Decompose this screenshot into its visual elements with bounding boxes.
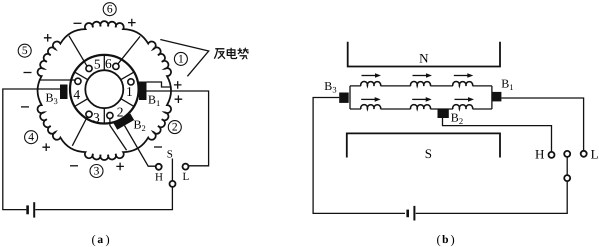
coil 5 — [18, 44, 31, 57]
svg-text:1: 1 — [178, 53, 184, 65]
current arrow top row 2 — [413, 75, 428, 77]
armature end connectors — [350, 86, 492, 109]
svg-text:S: S — [425, 146, 432, 161]
svg-text:N: N — [419, 50, 429, 65]
battery (a): long positive plate — [33, 202, 35, 217]
brush B1 (b) — [492, 92, 502, 102]
current arrow middle row 1 — [361, 98, 376, 100]
svg-text:2: 2 — [172, 122, 178, 134]
current arrow top row 1 — [362, 75, 377, 77]
segment 2 terminal dot — [107, 112, 113, 118]
coil 2 — [168, 121, 181, 134]
segment 4 terminal dot — [75, 78, 81, 84]
segment 6 terminal dot — [113, 63, 119, 69]
coil L4 bottom rail — [361, 105, 381, 109]
svg-text:6: 6 — [107, 4, 113, 16]
wire B3 to battery (left side) — [3, 89, 60, 210]
svg-text:(: ( — [437, 233, 441, 247]
coil L5 bottom rail — [411, 105, 431, 109]
brush B2 (rotated, on segment 2) — [113, 113, 134, 129]
plus sign coil 6 right end — [128, 19, 136, 27]
coil 1 — [174, 52, 187, 65]
svg-text:3: 3 — [94, 166, 100, 178]
wire battery+ to switch common — [35, 187, 172, 210]
radial wire dot6 to ring junction 60 — [118, 36, 140, 63]
plus sign at brush B1 lower — [175, 95, 183, 103]
terminal L (a) — [183, 164, 189, 170]
svg-text:H: H — [535, 147, 544, 162]
svg-text:a: a — [97, 234, 103, 246]
svg-text:2: 2 — [117, 105, 124, 120]
svg-text:4: 4 — [28, 132, 34, 144]
brush B3 — [60, 85, 68, 100]
svg-text:5: 5 — [94, 57, 101, 72]
current arrow middle row 3 — [455, 98, 470, 100]
coil 4 — [25, 131, 38, 144]
switch common terminal (a) — [170, 181, 176, 187]
coil L1 top rail — [361, 82, 381, 86]
wire battery to switch pivot (b) — [416, 181, 568, 213]
brush B3 (b) — [339, 93, 349, 103]
plus sign at brush B1 upper — [174, 81, 182, 89]
svg-text:3: 3 — [93, 110, 100, 125]
switch middle terminal (b) — [564, 151, 570, 157]
minus sign coil 2 lower end — [154, 146, 162, 148]
wire dot2 to ring junction 300 (jogged around brush B2) — [110, 119, 127, 151]
brush B1 — [139, 82, 147, 101]
armature coil ring (a) — [38, 21, 172, 160]
wire B2 to H — [125, 126, 156, 167]
current arrow middle row 2 — [412, 98, 427, 100]
coil 6 — [103, 3, 116, 16]
plus sign coil 5 upper end — [44, 34, 52, 42]
wire B3 left down to battery (b) — [313, 98, 405, 214]
svg-text:b: b — [442, 234, 448, 246]
svg-text:6: 6 — [105, 56, 112, 71]
svg-text:1: 1 — [126, 84, 133, 99]
svg-text:(: ( — [92, 233, 96, 247]
radial wire dot5 to ring junction 120 — [69, 36, 87, 66]
coil L2 top rail — [411, 82, 431, 86]
plus sign coil 4 lower end — [42, 143, 50, 151]
wire B1 to L (b) — [501, 98, 583, 151]
coil L6 bottom rail — [453, 105, 473, 109]
wire segment1/B1 to ring junction 0 (jogged) — [147, 82, 171, 87]
wire B1 lower output to L — [147, 91, 209, 166]
radial wire dot3 to ring junction 240 — [72, 117, 87, 146]
minus sign coil 4 upper end — [21, 106, 29, 108]
battery (a): short negative plate — [26, 205, 29, 214]
svg-text:5: 5 — [22, 45, 28, 57]
armature winding bottom rail with coils — [350, 108, 492, 110]
terminal H (a) — [156, 164, 162, 170]
svg-text:): ) — [106, 233, 110, 247]
back-EMF label (fan dian shi) — [214, 49, 225, 59]
minus sign coil 3 left end — [70, 165, 78, 167]
svg-text:4: 4 — [73, 87, 80, 102]
N pole piece — [348, 42, 500, 67]
segment 1 terminal dot — [128, 79, 134, 85]
commutator outer circle — [70, 55, 139, 124]
svg-text:): ) — [451, 233, 455, 247]
svg-text:H: H — [155, 171, 163, 183]
minus sign coil 6 left end — [74, 22, 82, 24]
commutator inner circle — [85, 70, 123, 108]
wire dot4 to ring junction 180 (routed above brush B3) — [39, 79, 76, 81]
segment 3 terminal dot — [86, 111, 92, 117]
coil L3 top rail — [453, 82, 473, 86]
switch S blade (a) — [171, 159, 173, 182]
svg-text:L: L — [591, 147, 599, 162]
wire B2 to H (b) — [443, 118, 552, 152]
battery (b): short plate — [406, 210, 409, 218]
battery (b): long plate — [413, 206, 415, 221]
terminal L (b) — [581, 151, 587, 157]
plus sign coil 3 right end — [116, 163, 124, 171]
switch pivot terminal (b) — [564, 175, 570, 181]
terminal H (b) — [549, 152, 555, 158]
switch blade (b) — [566, 157, 568, 175]
svg-text:L: L — [183, 171, 190, 183]
brush B2 (b) — [438, 109, 449, 118]
minus sign coil 5 lower end — [24, 72, 32, 74]
armature winding top rail with coils — [350, 85, 492, 87]
coil 3 — [90, 165, 103, 178]
back-EMF callout lines — [160, 40, 208, 77]
svg-text:S: S — [167, 149, 173, 161]
current arrow top row 3 — [454, 75, 469, 77]
S pole piece — [347, 133, 500, 157]
segment 5 terminal dot — [86, 65, 92, 71]
commutator segment dividers — [75, 55, 134, 124]
